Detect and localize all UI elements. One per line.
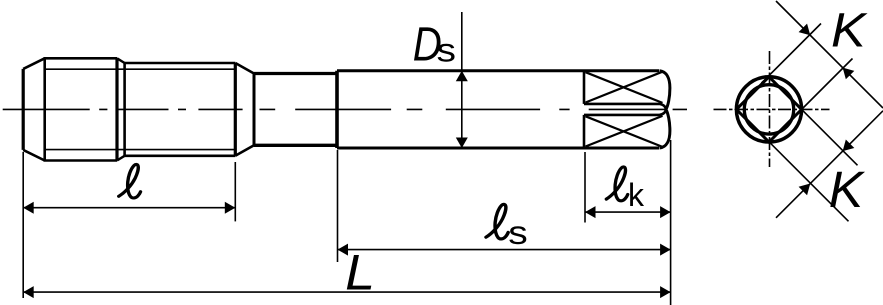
shank bottom edge	[337, 147, 659, 150]
dimension ls: extension line left	[337, 150, 339, 262]
left chamfer top	[23, 58, 45, 69]
end view horizontal centerline	[714, 108, 830, 110]
svg-text:s: s	[508, 214, 527, 251]
thread section divider vertical 2	[123, 63, 126, 156]
thread root line top	[44, 68, 235, 70]
dimension lk line with arrows	[585, 206, 671, 218]
svg-text:L: L	[345, 245, 375, 301]
dimension Ds line with arrows	[456, 12, 468, 148]
label L	[345, 245, 375, 301]
K extension line D (through bottom corner)	[762, 134, 849, 221]
end view vertical centerline	[769, 51, 771, 167]
svg-text:k: k	[628, 177, 645, 213]
shank start vertical	[335, 71, 339, 148]
label lk	[606, 167, 645, 213]
svg-text:K: K	[831, 2, 868, 57]
square section left edge	[583, 71, 586, 148]
K dimension line top with arrows	[776, 1, 883, 108]
square flat edge lower	[584, 109, 666, 115]
label Ds	[413, 18, 456, 71]
dimension l line with arrows	[23, 202, 235, 214]
thread section divider vertical 1	[115, 58, 118, 160]
neck bottom edge	[254, 144, 337, 147]
end view outer circle	[736, 77, 801, 142]
square cross lower	[586, 116, 663, 147]
K dimension line bottom with arrows	[776, 111, 883, 218]
K extension line A (through top corner)	[762, 24, 822, 84]
K extension line C (through right corner, lower)	[792, 99, 858, 165]
dimension ls line with arrows	[338, 244, 671, 256]
thread crest top (front section)	[44, 57, 118, 60]
label K bottom	[829, 162, 865, 218]
square flat edge upper	[584, 104, 666, 110]
label l (thread length)	[119, 164, 141, 198]
shank top edge	[337, 69, 659, 72]
thread root line bottom	[44, 149, 235, 151]
svg-text:K: K	[829, 162, 865, 218]
neck start vertical	[253, 74, 256, 146]
thread crest bottom (front section)	[44, 159, 118, 162]
tap domed end outline upper	[660, 71, 670, 110]
svg-text:s: s	[437, 31, 456, 68]
end view square (rotated 45)	[736, 77, 801, 142]
mini chamfer top between sections	[117, 58, 125, 63]
tap domed end outline lower	[660, 109, 670, 148]
thread end vertical	[234, 63, 237, 156]
end view inner circle	[744, 85, 793, 134]
thread crest bottom (rear section)	[125, 155, 236, 158]
tap left end face	[22, 69, 25, 150]
thread crest top (rear section)	[125, 62, 236, 65]
thread-to-neck chamfer top	[235, 63, 254, 74]
mini chamfer bottom between sections	[117, 156, 125, 161]
square cross upper	[586, 72, 663, 103]
dimension L line with arrows	[23, 286, 670, 298]
dimension lk: extension line right (tap end)	[670, 140, 672, 305]
label K top	[831, 2, 868, 57]
K extension line B (through right corner, upper)	[793, 59, 853, 119]
main centerline	[3, 108, 687, 110]
dimension l: extension line left	[22, 152, 24, 298]
chamfer end vertical	[43, 58, 46, 160]
left chamfer bottom	[23, 150, 45, 161]
dimension lk: extension line left	[584, 152, 586, 223]
neck top edge	[254, 72, 337, 75]
label ls	[486, 204, 528, 251]
thread-to-neck chamfer bottom	[235, 145, 254, 156]
dimension l: extension line right	[234, 162, 236, 221]
